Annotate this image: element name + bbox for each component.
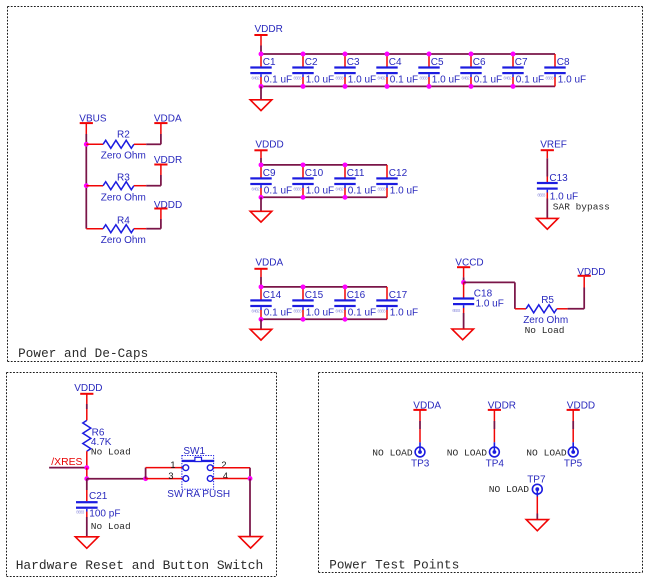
- test point TP3: [411, 447, 430, 469]
- label NO LOAD (TP5): [526, 448, 567, 459]
- junction dots at C7: [511, 52, 516, 89]
- svg-text:1.0 uF: 1.0 uF: [306, 307, 334, 318]
- svg-text:C9: C9: [263, 168, 276, 179]
- svg-text:/XRES: /XRES: [51, 457, 82, 468]
- capacitor C17 1.0 uF: [376, 287, 418, 319]
- svg-text:1.0 uF: 1.0 uF: [558, 74, 586, 85]
- junction dots at C14: [259, 284, 264, 321]
- ground (row2 VDDD rail): [250, 211, 272, 222]
- svg-text:C8: C8: [557, 57, 570, 68]
- test point TP7: [527, 474, 546, 494]
- ground (C13): [537, 218, 559, 229]
- power symbol VDDA (row3): [254, 258, 283, 277]
- junction dots at C11: [343, 162, 348, 199]
- svg-text:1.0 uF: 1.0 uF: [306, 185, 334, 196]
- svg-text:C21: C21: [89, 491, 108, 502]
- junction dots at C15: [301, 284, 306, 321]
- wire pin 2: [213, 467, 250, 469]
- label NO LOAD (TP4): [447, 448, 488, 459]
- svg-text:SAR bypass: SAR bypass: [553, 202, 610, 213]
- svg-text:0402: 0402: [251, 309, 260, 315]
- svg-text:0402: 0402: [503, 76, 512, 82]
- ground (SW1): [239, 537, 262, 549]
- svg-text:R5: R5: [541, 295, 554, 306]
- wire TP7 to ground: [536, 489, 538, 519]
- label R5 No Load: [525, 325, 565, 336]
- svg-text:C11: C11: [347, 168, 365, 179]
- wire VBUS vertical: [85, 134, 87, 229]
- svg-text:0402: 0402: [377, 76, 386, 82]
- wire R3 to VDDR: [146, 165, 161, 186]
- svg-text:Zero Ohm: Zero Ohm: [101, 192, 146, 203]
- svg-text:NO LOAD: NO LOAD: [489, 484, 530, 495]
- svg-text:NO LOAD: NO LOAD: [372, 448, 413, 459]
- svg-text:NO LOAD: NO LOAD: [526, 448, 567, 459]
- ground (C21): [75, 537, 98, 549]
- svg-text:1: 1: [170, 460, 175, 470]
- junction dots at C6: [469, 52, 474, 89]
- wire VDDD stub to rail: [260, 158, 262, 165]
- capacitor C9 0.1 uF: [250, 165, 292, 197]
- svg-text:0603: 0603: [545, 76, 554, 82]
- capacitor C3 1.0 uF: [334, 54, 376, 86]
- wire pin 4: [213, 478, 250, 480]
- svg-text:C2: C2: [305, 57, 318, 68]
- power symbol VDDD (TP5): [567, 401, 596, 422]
- svg-text:SW1: SW1: [183, 446, 205, 457]
- svg-text:No Load: No Load: [91, 521, 131, 532]
- ground (row1 VDDR rail): [250, 100, 272, 111]
- power symbol VDDD (R6): [74, 383, 102, 404]
- svg-text:C4: C4: [389, 57, 402, 68]
- switch SW1 SW RA PUSH: [167, 446, 230, 500]
- wire rail to ground row1: [260, 86, 262, 99]
- node XRES junction 2: [84, 476, 89, 481]
- power symbol VDDA (TP3): [413, 401, 441, 422]
- svg-text:TP4: TP4: [486, 458, 505, 469]
- svg-text:0603: 0603: [293, 76, 302, 82]
- svg-text:Power Test Points: Power Test Points: [329, 559, 459, 573]
- svg-text:0.1 uF: 0.1 uF: [264, 74, 292, 85]
- capacitor C11 0.1 uF: [334, 165, 376, 197]
- capacitor C7 0.1 uF: [502, 54, 544, 86]
- capacitor C1 0.1 uF: [250, 54, 292, 86]
- node pin4 junction: [248, 476, 253, 481]
- wire between junctions: [86, 468, 88, 479]
- section border: Power Test Points box: [319, 373, 643, 573]
- svg-text:C12: C12: [389, 168, 408, 179]
- junction dots at C1: [259, 52, 264, 89]
- wire VREF to C13: [546, 158, 548, 176]
- svg-text:0402: 0402: [335, 309, 344, 315]
- svg-text:C13: C13: [549, 173, 568, 184]
- capacitor C15 1.0 uF: [292, 287, 334, 319]
- svg-text:1.0 uF: 1.0 uF: [390, 185, 418, 196]
- svg-text:0.1 uF: 0.1 uF: [390, 74, 418, 85]
- svg-text:No Load: No Load: [91, 446, 131, 457]
- pin number 2: [221, 460, 226, 470]
- power symbol VDDR (R3): [154, 155, 182, 166]
- wire C21 to ground: [86, 517, 88, 537]
- svg-text:TP3: TP3: [411, 458, 430, 469]
- svg-text:No Load: No Load: [525, 325, 565, 336]
- svg-text:0603: 0603: [293, 187, 302, 193]
- svg-text:0402: 0402: [461, 76, 470, 82]
- wire top rail VDDR: [261, 53, 555, 55]
- svg-text:2: 2: [221, 460, 226, 470]
- wire bottom rail row1: [261, 85, 555, 87]
- svg-text:0603: 0603: [293, 309, 302, 315]
- node XRES junction 1: [84, 465, 89, 470]
- capacitor C4 0.1 uF: [376, 54, 418, 86]
- capacitor C12 1.0 uF: [376, 165, 418, 197]
- svg-text:Zero Ohm: Zero Ohm: [101, 151, 146, 162]
- svg-text:0603: 0603: [537, 192, 546, 198]
- svg-text:0603: 0603: [377, 187, 386, 193]
- capacitor C10 1.0 uF: [292, 165, 334, 197]
- wire corner to pin 1: [145, 468, 147, 479]
- svg-text:4: 4: [223, 471, 228, 481]
- capacitor C5 1.0 uF: [418, 54, 460, 86]
- svg-text:R2: R2: [117, 130, 130, 141]
- svg-text:C10: C10: [305, 168, 324, 179]
- wire VDDD to TP5: [572, 421, 574, 452]
- node SW junction: [143, 476, 148, 481]
- svg-text:1.0 uF: 1.0 uF: [348, 74, 376, 85]
- wire top rail row2: [261, 164, 387, 166]
- svg-text:C7: C7: [515, 57, 528, 68]
- capacitor C8 1.0 uF: [544, 54, 586, 86]
- svg-text:0603: 0603: [76, 509, 85, 515]
- test point TP5: [564, 447, 583, 469]
- svg-text:1.0 uF: 1.0 uF: [476, 299, 504, 310]
- label C21 No Load: [91, 521, 131, 532]
- svg-text:C14: C14: [263, 290, 282, 301]
- power symbol VREF: [540, 140, 567, 159]
- ground (TP7): [526, 520, 548, 531]
- svg-text:3: 3: [168, 471, 173, 481]
- svg-text:0.1 uF: 0.1 uF: [264, 307, 292, 318]
- wire bottom rail row3: [261, 318, 387, 320]
- svg-text:0.1 uF: 0.1 uF: [348, 185, 376, 196]
- label R6 No Load: [91, 446, 131, 457]
- node VBUS junction 1: [84, 142, 89, 147]
- wire VDDR to TP4: [493, 421, 495, 452]
- junction dots at C9: [259, 162, 264, 199]
- svg-text:SW RA PUSH: SW RA PUSH: [167, 489, 230, 500]
- wire C13 to ground: [546, 199, 548, 219]
- svg-text:C16: C16: [347, 290, 366, 301]
- wire C18 to ground: [463, 313, 465, 329]
- section border: Hardware Reset box: [7, 373, 277, 577]
- wire VDDA to TP3: [419, 421, 421, 452]
- svg-text:100 pF: 100 pF: [89, 509, 120, 520]
- net label /XRES: [51, 457, 82, 468]
- wire pin 2 corner: [249, 468, 251, 479]
- pin number 4: [223, 471, 228, 481]
- capacitor C18 1.0 uF: [452, 282, 504, 313]
- power symbol VBUS: [79, 113, 107, 134]
- wire pin 1: [146, 467, 183, 469]
- svg-text:C1: C1: [263, 57, 276, 68]
- svg-text:0.1 uF: 0.1 uF: [348, 307, 376, 318]
- capacitor C14 0.1 uF: [250, 287, 292, 319]
- svg-text:0.1 uF: 0.1 uF: [516, 74, 544, 85]
- svg-text:TP5: TP5: [564, 458, 583, 469]
- pin number 3: [168, 471, 173, 481]
- svg-text:C5: C5: [431, 57, 444, 68]
- label SAR bypass: [553, 202, 610, 213]
- wire SW1 to ground: [249, 479, 251, 537]
- power symbol VDDR (TP4): [488, 401, 516, 422]
- pin number 1: [170, 460, 175, 470]
- resistor R6 4.7K No Load: [83, 420, 112, 467]
- svg-text:0402: 0402: [251, 187, 260, 193]
- svg-text:Power and De-Caps: Power and De-Caps: [18, 347, 148, 361]
- resistor R2 Zero Ohm: [86, 130, 146, 162]
- svg-text:C15: C15: [305, 290, 324, 301]
- svg-text:0603: 0603: [419, 76, 428, 82]
- wire VDDD to R6: [86, 404, 88, 420]
- resistor R4 Zero Ohm: [86, 216, 146, 246]
- power symbol VDDD (R4): [154, 200, 182, 211]
- wire junction to SW1: [87, 478, 146, 480]
- wire R5 to VDDD: [568, 277, 585, 309]
- capacitor C21 100 pF: [76, 479, 120, 520]
- svg-text:C6: C6: [473, 57, 486, 68]
- svg-text:1.0 uF: 1.0 uF: [432, 74, 460, 85]
- resistor R5 Zero Ohm No Load: [515, 295, 568, 326]
- svg-text:0.1 uF: 0.1 uF: [264, 185, 292, 196]
- svg-text:R3: R3: [117, 172, 130, 183]
- svg-text:VDDD: VDDD: [74, 383, 102, 394]
- svg-text:Zero Ohm: Zero Ohm: [101, 235, 146, 246]
- svg-text:0603: 0603: [377, 309, 386, 315]
- junction dots at C16: [343, 284, 348, 321]
- svg-text:0603: 0603: [335, 76, 344, 82]
- capacitor C6 0.1 uF: [460, 54, 502, 86]
- capacitor C2 1.0 uF: [292, 54, 334, 86]
- ground (row3 VDDA rail): [250, 329, 272, 340]
- svg-text:1.0 uF: 1.0 uF: [306, 74, 334, 85]
- power symbol VDDD (R5): [577, 267, 605, 278]
- wire VCCD to R5: [464, 282, 515, 308]
- power symbol VCCD: [455, 258, 483, 278]
- node VBUS junction 2: [84, 183, 89, 188]
- power symbol VDDR (top rail): [254, 24, 282, 46]
- wire bottom rail row2: [261, 196, 387, 198]
- section title: Power and De-Caps: [18, 347, 148, 361]
- svg-text:VDDR: VDDR: [255, 24, 283, 35]
- wire pin 3: [146, 478, 183, 480]
- junction dots at C2: [301, 52, 306, 89]
- wire VDDR stub to rail: [260, 46, 262, 55]
- label NO LOAD (TP7): [489, 484, 530, 495]
- junction dots at C3: [343, 52, 348, 89]
- svg-text:R4: R4: [117, 216, 130, 227]
- ground (C18): [452, 329, 474, 340]
- wire top rail row3: [261, 286, 387, 288]
- section title: Power Test Points: [329, 559, 459, 573]
- svg-text:VDDD: VDDD: [255, 139, 283, 150]
- label NO LOAD (TP3): [372, 448, 413, 459]
- svg-text:VREF: VREF: [540, 140, 567, 151]
- junction dots at C4: [385, 52, 390, 89]
- svg-text:0402: 0402: [335, 187, 344, 193]
- svg-text:0603: 0603: [452, 308, 461, 314]
- capacitor C13 1.0 uF SAR bypass: [537, 173, 578, 202]
- svg-text:C3: C3: [347, 57, 360, 68]
- node VCCD junction: [461, 280, 466, 285]
- svg-text:NO LOAD: NO LOAD: [447, 448, 488, 459]
- capacitor C16 0.1 uF: [334, 287, 376, 319]
- wire rail to ground row2: [260, 197, 262, 211]
- wire VCCD stub: [463, 277, 465, 282]
- svg-text:0402: 0402: [251, 76, 260, 82]
- section title: Hardware Reset and Button Switch: [16, 558, 264, 573]
- test point TP4: [486, 447, 505, 469]
- resistor R3 Zero Ohm: [86, 172, 146, 203]
- power symbol VDDA (R2): [154, 113, 182, 124]
- junction dots at C10: [301, 162, 306, 199]
- wire VDDA stub to rail: [260, 277, 262, 287]
- svg-text:1.0 uF: 1.0 uF: [390, 307, 418, 318]
- junction dots at C5: [427, 52, 432, 89]
- svg-text:0.1 uF: 0.1 uF: [474, 74, 502, 85]
- svg-text:C17: C17: [389, 290, 408, 301]
- svg-text:VDDA: VDDA: [255, 258, 283, 269]
- wire R4 to VDDD: [146, 209, 161, 228]
- wire R2 to VDDA: [146, 124, 161, 144]
- power symbol VDDD (row2): [254, 139, 283, 158]
- wire rail to ground row3: [260, 319, 262, 329]
- svg-text:Hardware Reset and Button Swit: Hardware Reset and Button Switch: [16, 558, 264, 573]
- wire /XRES: [49, 467, 87, 469]
- section border: Power and De-Caps box: [8, 7, 643, 362]
